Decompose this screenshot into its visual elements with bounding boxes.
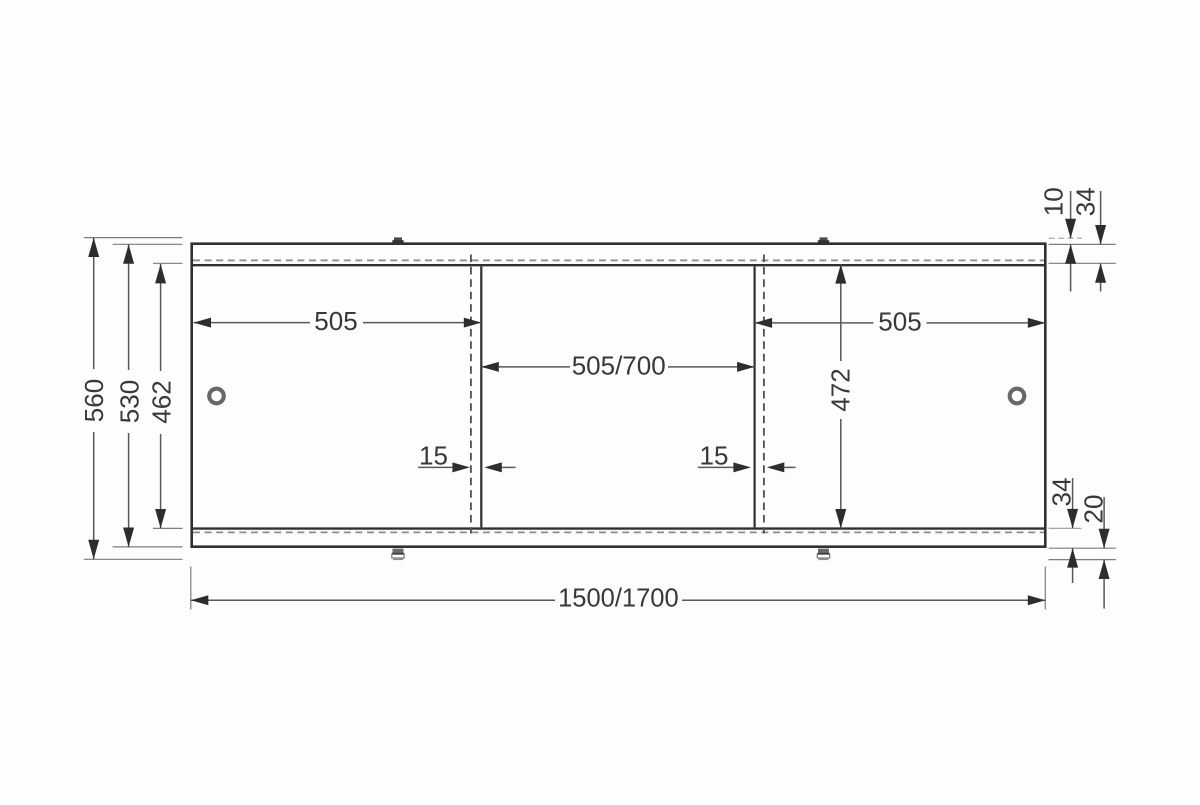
svg-text:505: 505 [314,306,357,336]
top screw right [818,237,829,243]
extension lines right bottom [1049,528,1116,559]
svg-text:34: 34 [1046,478,1076,507]
bottom foot left [392,549,404,560]
divider 1 dashed line [470,255,472,534]
right handle [1010,389,1025,404]
svg-text:34: 34 [1071,187,1101,216]
bottom foot right [817,549,829,560]
dimension 34 top right [1071,187,1107,291]
svg-text:20: 20 [1079,495,1109,524]
svg-text:530: 530 [115,380,145,423]
dimension 1500/1700 bottom [191,585,1046,614]
svg-text:505: 505 [878,307,921,337]
svg-text:1500/1700: 1500/1700 [558,585,679,613]
extension lines right top [1049,238,1116,263]
dimension 505 right [755,307,1046,337]
panel outer outline [192,244,1046,547]
bottom rail top line [193,527,1044,529]
dimension 10 top right [1038,187,1076,291]
dimension 34 bottom right [1046,478,1078,583]
dimension 462 [147,264,177,528]
extension lines bottom dim [191,567,1046,610]
dimension 505/700 center [481,351,754,381]
dimension 472 [825,264,855,528]
svg-text:15: 15 [700,440,729,470]
dimension 560 [79,238,109,560]
dimension 530 [115,244,145,547]
bottom rail dashed line [193,531,1044,533]
dimension 20 bottom right [1079,495,1110,609]
divider 2 solid line [753,266,755,527]
left handle [209,389,224,404]
top rail bottom line [193,264,1044,266]
dimension 15 right [698,440,796,472]
divider 1 solid line [480,266,482,527]
svg-text:15: 15 [419,440,448,470]
top rail dashed line [193,259,1044,261]
divider 2 dashed line [763,255,765,534]
svg-text:505/700: 505/700 [572,351,666,381]
dimension 505 left [194,306,482,336]
extension lines left side [84,238,183,560]
svg-text:462: 462 [147,380,177,423]
svg-text:10: 10 [1038,187,1068,216]
dimension 15 left [418,440,516,472]
top screw left [392,237,403,243]
svg-text:472: 472 [825,368,855,411]
svg-text:560: 560 [79,379,109,422]
